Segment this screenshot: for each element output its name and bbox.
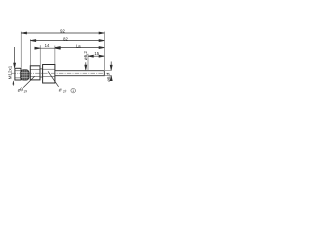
svg-text:14: 14 xyxy=(45,43,50,48)
extension line left 92 xyxy=(20,32,22,68)
dimension 14 xyxy=(34,43,60,49)
extension line 15 left xyxy=(87,54,89,70)
thread M12x1 body xyxy=(15,68,21,80)
hex label 2 xyxy=(48,71,75,93)
svg-text:⌀6,2: ⌀6,2 xyxy=(83,51,88,61)
tip diameter dimension 6,7 xyxy=(105,62,112,82)
extension line 14 right / La left xyxy=(54,46,56,65)
extension line right end xyxy=(103,32,105,70)
svg-text:M12x1: M12x1 xyxy=(7,65,12,79)
svg-text:15: 15 xyxy=(94,51,99,56)
label M12x1 xyxy=(7,47,15,79)
dimension La xyxy=(55,43,105,48)
extension line 14 left xyxy=(39,45,41,65)
svg-text:92: 92 xyxy=(60,28,65,33)
svg-text:82: 82 xyxy=(63,37,68,42)
svg-text:⌀6,7: ⌀6,7 xyxy=(106,72,111,81)
dimension 92 xyxy=(21,28,104,34)
svg-text:19: 19 xyxy=(23,89,27,94)
svg-text:1: 1 xyxy=(72,89,74,93)
dimension 15 xyxy=(88,51,104,57)
centerline xyxy=(12,72,110,74)
probe tube xyxy=(55,71,104,76)
svg-text:22: 22 xyxy=(61,89,66,94)
svg-text:La: La xyxy=(76,43,81,48)
hex nut SW19 xyxy=(43,65,55,84)
knurled gland xyxy=(21,70,29,80)
nut 1 xyxy=(30,66,40,80)
extension line left 82 xyxy=(29,39,31,65)
neck xyxy=(40,69,43,77)
hex label 1 xyxy=(13,76,35,93)
label diameter 6,2 xyxy=(83,51,88,71)
dimension 82 xyxy=(30,37,104,42)
